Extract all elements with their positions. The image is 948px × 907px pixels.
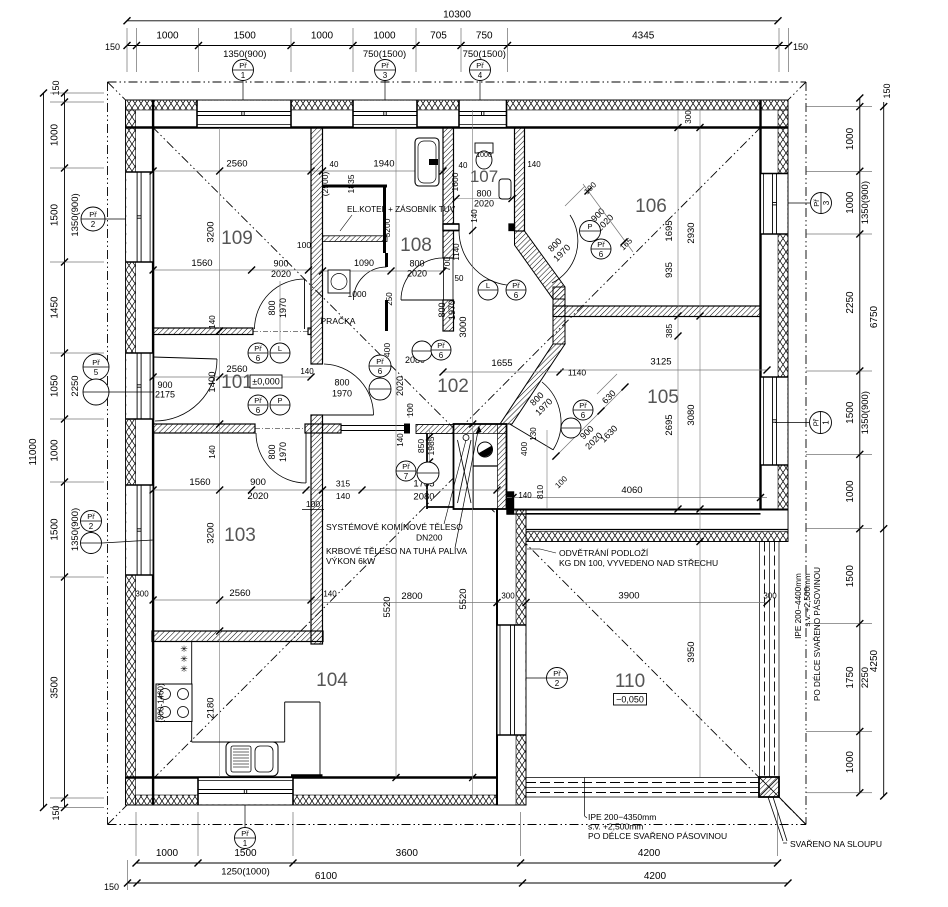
- svg-text:s.v. +2,500mm: s.v. +2,500mm: [803, 573, 812, 626]
- svg-text:Př: Př: [812, 418, 821, 426]
- stove: [156, 684, 192, 722]
- leader svareno: [768, 797, 783, 841]
- svg-text:150: 150: [793, 42, 808, 52]
- terrace west wall: [497, 509, 526, 805]
- svg-text:810: 810: [535, 485, 545, 499]
- svg-text:Př: Př: [376, 357, 384, 366]
- svg-text:2020: 2020: [395, 376, 405, 396]
- svg-text:900: 900: [273, 259, 288, 269]
- svg-text:1350(900): 1350(900): [70, 193, 81, 236]
- svg-text:705: 705: [430, 31, 447, 42]
- svg-text:1350(900): 1350(900): [860, 181, 871, 224]
- svg-text:1000: 1000: [845, 751, 856, 774]
- terrace north wall: [497, 509, 788, 542]
- exterior wall right core: [761, 100, 789, 542]
- dimension chain line: [136, 862, 778, 864]
- window bottom kitchen: [198, 778, 293, 804]
- vent pipe circle: [463, 435, 469, 441]
- svg-text:1350(900): 1350(900): [223, 49, 266, 60]
- svg-text:40: 40: [330, 160, 339, 169]
- marker Pr4 top: [470, 60, 491, 81]
- marker Pr2 terrace: [547, 668, 568, 689]
- door arc 102-108: [401, 258, 443, 300]
- svg-text:Př: Př: [553, 669, 561, 678]
- svg-text:6: 6: [514, 291, 519, 300]
- window right 105: [761, 377, 787, 465]
- bathtub room 108: [415, 138, 439, 186]
- window top 1000: [353, 101, 417, 127]
- svg-text:PO DÉLCE SVAŘENO PÁSOVINOU: PO DÉLCE SVAŘENO PÁSOVINOU: [588, 831, 727, 841]
- window left room103: [126, 485, 152, 575]
- door arc 109: [255, 279, 305, 329]
- steel column: [759, 777, 779, 797]
- marker Pr1 top: [233, 60, 254, 81]
- door arc entry 101: [155, 359, 217, 421]
- marker circle: [83, 379, 109, 405]
- marker: [369, 355, 391, 377]
- in-plan dim line y370 (3125): [560, 369, 767, 371]
- svg-text:50: 50: [455, 274, 464, 283]
- marker Pr1 right: [810, 412, 832, 434]
- sink: [226, 742, 278, 776]
- svg-text:2250: 2250: [70, 375, 81, 396]
- svg-text:6750: 6750: [869, 305, 880, 328]
- svg-text:101: 101: [221, 372, 253, 393]
- svg-text:5: 5: [94, 368, 99, 377]
- door threshold 101-103: [255, 428, 305, 430]
- chimney circle: [478, 442, 493, 457]
- insulation band bottom: [136, 795, 526, 805]
- svg-text:1695: 1695: [664, 220, 675, 241]
- dim line 6100/4200: [128, 882, 789, 884]
- roof overhang outline: [108, 81, 807, 83]
- svg-text:1000: 1000: [476, 152, 492, 159]
- svg-text:800: 800: [267, 444, 277, 459]
- svg-text:103: 103: [224, 525, 256, 546]
- marker Pr1 bottom: [235, 828, 256, 849]
- svg-text:PO DÉLCE SVAŘENO PÁSOVINOU: PO DÉLCE SVAŘENO PÁSOVINOU: [812, 567, 822, 701]
- svg-text:1970: 1970: [278, 298, 288, 318]
- svg-text:3200: 3200: [206, 522, 217, 543]
- svg-text:140: 140: [336, 491, 350, 501]
- svg-text:1: 1: [243, 839, 248, 848]
- svg-text:4345: 4345: [632, 31, 655, 42]
- svg-text:300: 300: [763, 592, 777, 601]
- in-plan dim line y497.5 (4060): [507, 497, 767, 499]
- svg-text:✳: ✳: [180, 654, 188, 664]
- in-plan dim line y372 (1655): [443, 371, 560, 373]
- svg-text:140: 140: [300, 367, 314, 376]
- svg-text:2930: 2930: [686, 222, 697, 243]
- bathtub faucet: [429, 159, 438, 165]
- svg-text:ODVĚTRÁNÍ PODLOŽÍ: ODVĚTRÁNÍ PODLOŽÍ: [559, 548, 649, 558]
- boiler niche partition (EL.KOTEL): [323, 185, 388, 188]
- svg-text:4200: 4200: [638, 848, 661, 859]
- svg-text:107: 107: [470, 167, 498, 186]
- svg-text:300: 300: [684, 110, 693, 124]
- svg-text:Př: Př: [254, 396, 262, 405]
- vertical dim x396: [395, 128, 397, 777]
- svg-text:102: 102: [437, 376, 469, 397]
- svg-text:4200: 4200: [644, 871, 667, 882]
- svg-text:800: 800: [409, 259, 424, 269]
- svg-text:700: 700: [442, 257, 452, 271]
- passage lintel lines 102: [341, 425, 404, 427]
- svg-text:Př: Př: [92, 358, 100, 367]
- svg-text:104: 104: [316, 670, 348, 691]
- kitchen counter: [191, 642, 193, 743]
- basin room 107: [499, 179, 511, 199]
- svg-text:3600: 3600: [396, 848, 419, 859]
- svg-text:✳: ✳: [180, 644, 188, 654]
- in-plan dim line y602.5: [323, 602, 768, 604]
- svg-text:1970: 1970: [447, 300, 457, 320]
- svg-text:150: 150: [104, 882, 119, 892]
- window top 1500: [197, 101, 291, 127]
- svg-text:1000: 1000: [373, 31, 396, 42]
- svg-text:EL.KOTEL + ZÁSOBNÍK TUV: EL.KOTEL + ZÁSOBNÍK TUV: [347, 204, 456, 214]
- svg-text:140: 140: [208, 315, 217, 329]
- diagonal wall corridor to 106: [515, 231, 566, 299]
- door arc 102-107: [459, 231, 514, 286]
- marker: [431, 340, 451, 360]
- marker: [506, 280, 526, 300]
- svg-text:5520: 5520: [458, 588, 469, 609]
- svg-text:1000: 1000: [156, 31, 179, 42]
- svg-text:108: 108: [400, 235, 432, 256]
- svg-text:11000: 11000: [28, 438, 39, 466]
- svg-text:150: 150: [105, 42, 120, 52]
- marker: [591, 239, 611, 259]
- roof hip line: [457, 82, 806, 432]
- svg-text:800: 800: [334, 378, 349, 388]
- svg-text:1450: 1450: [50, 296, 61, 319]
- svg-text:6: 6: [256, 354, 261, 363]
- marker: [396, 461, 416, 481]
- svg-text:(2500): (2500): [320, 172, 330, 197]
- window top 750: [459, 101, 507, 127]
- svg-text:6: 6: [378, 367, 383, 376]
- svg-text:3080: 3080: [686, 404, 697, 425]
- svg-text:Př: Př: [437, 341, 445, 350]
- svg-text:1350(900): 1350(900): [70, 508, 81, 551]
- marker Pr5: [83, 354, 109, 380]
- svg-text:3900: 3900: [618, 591, 639, 602]
- svg-text:1050: 1050: [50, 374, 61, 397]
- svg-text:2800: 2800: [401, 591, 422, 602]
- door arc 105: [542, 382, 561, 450]
- room 105 bottom wall: [507, 509, 761, 511]
- svg-text:DN200: DN200: [416, 533, 443, 543]
- in-plan dim line y270 (109): [153, 269, 311, 271]
- marker: [248, 395, 268, 415]
- dimension chain line: [859, 98, 861, 793]
- svg-text:3125: 3125: [650, 357, 671, 368]
- door arc 101-102: [324, 364, 374, 415]
- svg-text:1500: 1500: [845, 401, 856, 424]
- insulation band right: [778, 110, 788, 542]
- svg-text:P: P: [587, 222, 592, 231]
- svg-text:Př: Př: [812, 199, 821, 207]
- in-plan dim line y490: [153, 489, 497, 491]
- svg-text:750(1500): 750(1500): [463, 49, 506, 60]
- interior wall left of 106: [515, 128, 525, 232]
- marker Pr3 right: [811, 193, 832, 214]
- svg-text:Př: Př: [87, 512, 95, 521]
- interior wall 108/107: [443, 128, 454, 259]
- svg-text:2: 2: [555, 679, 560, 688]
- marker circle: [412, 341, 432, 361]
- svg-text:Př: Př: [381, 61, 389, 70]
- door arc 101-103: [256, 433, 306, 483]
- dim total 10300: [127, 20, 778, 22]
- svg-text:Př: Př: [241, 829, 249, 838]
- svg-text:100: 100: [406, 403, 415, 417]
- insulation band left: [126, 110, 136, 805]
- svg-text:4060: 4060: [621, 485, 642, 496]
- svg-text:1090: 1090: [354, 258, 374, 268]
- svg-text:1600: 1600: [450, 172, 460, 191]
- svg-text:900: 900: [250, 477, 266, 488]
- svg-text:3: 3: [383, 71, 388, 80]
- svg-text:10300: 10300: [443, 10, 471, 21]
- roof ridge: [456, 432, 458, 475]
- svg-text:3500: 3500: [50, 676, 61, 699]
- svg-text:2695: 2695: [664, 414, 675, 435]
- exterior wall left core: [126, 100, 154, 805]
- svg-text:3: 3: [822, 200, 831, 205]
- marker circle: [580, 221, 601, 242]
- svg-text:IPE 200−4350mm: IPE 200−4350mm: [588, 812, 656, 822]
- level box -0.050: [614, 694, 647, 706]
- svg-text:P: P: [277, 396, 282, 405]
- svg-text:140: 140: [518, 491, 532, 500]
- svg-text:100: 100: [306, 499, 320, 509]
- in-plan dim line y377 (101): [153, 376, 311, 378]
- roof hip line: [108, 82, 458, 432]
- svg-text:150: 150: [882, 83, 892, 98]
- marker circle: [417, 462, 439, 484]
- vertical dim x700: [699, 108, 701, 777]
- svg-text:2250: 2250: [845, 291, 856, 314]
- svg-text:2175: 2175: [155, 390, 175, 400]
- svg-text:1000: 1000: [50, 439, 61, 462]
- door threshold 109: [253, 331, 308, 333]
- svg-text:140: 140: [323, 590, 337, 599]
- svg-text:2020: 2020: [474, 199, 494, 209]
- interior wall below 106: [553, 306, 761, 317]
- interior wall 101/103: [153, 424, 255, 433]
- svg-text:6: 6: [256, 406, 261, 415]
- svg-text:40: 40: [459, 161, 468, 170]
- dim total 11000: [43, 93, 45, 808]
- svg-text:2020: 2020: [247, 491, 268, 502]
- chimney block (komin): [454, 424, 507, 509]
- svg-text:6: 6: [599, 250, 604, 259]
- vertical dim x678: [677, 108, 679, 509]
- svg-text:140: 140: [396, 433, 405, 447]
- flue slashes: [458, 440, 472, 503]
- door frame lines 108: [443, 258, 445, 300]
- IPE beams south: [526, 777, 779, 779]
- svg-text:2250: 2250: [860, 667, 871, 688]
- wall stub under 106: [553, 287, 565, 344]
- svg-text:1000: 1000: [50, 123, 61, 146]
- svg-text:PRAČKA: PRAČKA: [321, 316, 356, 326]
- svg-text:±0,000: ±0,000: [252, 377, 279, 387]
- roof hip line: [457, 475, 806, 825]
- marker circle: [81, 533, 102, 554]
- svg-text:2080: 2080: [413, 492, 434, 503]
- svg-text:1350(900): 1350(900): [860, 391, 871, 434]
- svg-text:SYSTÉMOVÉ KOMÍNOVÉ TĚLESO: SYSTÉMOVÉ KOMÍNOVÉ TĚLESO: [326, 522, 463, 532]
- svg-text:140: 140: [527, 160, 541, 169]
- svg-text:800: 800: [437, 302, 447, 317]
- svg-text:7: 7: [404, 472, 409, 481]
- svg-text:110: 110: [615, 671, 645, 692]
- svg-text:2020: 2020: [407, 269, 427, 279]
- svg-text:Př: Př: [239, 61, 247, 70]
- svg-text:1000: 1000: [311, 31, 334, 42]
- interior wall 103/104: [152, 631, 323, 642]
- svg-text:935: 935: [664, 262, 675, 278]
- svg-text:−0,050: −0,050: [616, 695, 644, 705]
- svg-text:IPE 200−4400mm: IPE 200−4400mm: [794, 573, 803, 639]
- svg-text:250: 250: [385, 292, 394, 306]
- svg-text:1560: 1560: [189, 477, 210, 488]
- exterior wall top core: [126, 100, 788, 128]
- svg-text:750: 750: [476, 31, 493, 42]
- svg-text:1750: 1750: [845, 666, 856, 689]
- svg-text:3000: 3000: [458, 316, 469, 337]
- svg-text:385: 385: [664, 324, 674, 338]
- svg-text:1000: 1000: [845, 127, 856, 150]
- svg-text:850: 850: [416, 439, 426, 453]
- dimension chain line: [64, 93, 66, 808]
- svg-text:1000: 1000: [845, 480, 856, 503]
- svg-text:106: 106: [635, 196, 667, 217]
- entry door left: [126, 353, 152, 419]
- chimney closet west wall: [416, 425, 454, 434]
- svg-text:130: 130: [529, 427, 538, 441]
- svg-text:2180: 2180: [206, 697, 217, 718]
- left wall inner face: [152, 100, 154, 805]
- svg-text:1000: 1000: [156, 848, 179, 859]
- svg-text:SVAŘENO NA SLOUPU: SVAŘENO NA SLOUPU: [790, 839, 882, 849]
- french door terrace wall: [498, 625, 526, 735]
- svg-text:1970: 1970: [278, 442, 288, 462]
- marker circle: [478, 280, 498, 300]
- interior wall below room 109: [153, 328, 253, 335]
- svg-text:(800-1460): (800-1460): [157, 683, 166, 722]
- svg-text:✳: ✳: [180, 664, 188, 674]
- marker circle: [270, 395, 290, 415]
- svg-text:800: 800: [476, 189, 491, 199]
- svg-text:1400: 1400: [207, 371, 218, 392]
- washer cell dim line y271: [323, 270, 444, 272]
- marker left Pr2: [81, 207, 105, 231]
- in-plan dim line y171: [153, 170, 445, 172]
- wall pier mark: [291, 774, 323, 778]
- svg-text:3200: 3200: [206, 221, 217, 242]
- svg-text:400: 400: [382, 343, 392, 357]
- roof corner diagonal at column: [779, 797, 806, 825]
- bottom wall inner face: [126, 776, 526, 778]
- svg-text:315: 315: [336, 479, 350, 489]
- svg-text:Př: Př: [89, 210, 97, 219]
- washer cell wall: [385, 253, 388, 267]
- svg-text:2: 2: [89, 522, 94, 531]
- svg-text:1140: 1140: [568, 368, 587, 378]
- insulation band top: [126, 100, 788, 110]
- svg-text:100: 100: [297, 240, 311, 250]
- svg-text:2: 2: [91, 220, 96, 229]
- svg-text:140: 140: [470, 209, 479, 223]
- svg-text:400: 400: [519, 442, 529, 456]
- marker circle: [561, 418, 581, 438]
- svg-text:Př: Př: [402, 462, 410, 471]
- svg-text:150: 150: [51, 80, 61, 95]
- svg-text:2020: 2020: [271, 269, 291, 279]
- door arc washer cell: [354, 267, 387, 300]
- level box 0.000: [250, 375, 282, 388]
- right wall inner face: [759, 100, 761, 542]
- svg-text:750(1500): 750(1500): [363, 49, 406, 60]
- svg-text:1: 1: [822, 420, 831, 425]
- svg-text:1500: 1500: [50, 518, 61, 541]
- svg-text:1500: 1500: [50, 203, 61, 226]
- svg-text:105: 105: [647, 387, 679, 408]
- svg-text:VÝKON 6kW: VÝKON 6kW: [326, 556, 375, 566]
- exterior wall bottom core: [126, 778, 526, 806]
- svg-text:2560: 2560: [229, 588, 250, 599]
- marker left Pr2c: [81, 511, 102, 532]
- svg-text:3200: 3200: [382, 218, 392, 237]
- svg-text:KRBOVÉ TĚLESO NA TUHÁ PALIVA: KRBOVÉ TĚLESO NA TUHÁ PALIVA: [326, 546, 467, 556]
- wall 107 bottom: [443, 224, 459, 231]
- roof hip line: [108, 475, 458, 825]
- svg-text:300: 300: [501, 592, 515, 601]
- svg-text:s.v. +2,500mm: s.v. +2,500mm: [588, 822, 643, 832]
- IPE beams east: [759, 542, 761, 798]
- svg-text:6: 6: [439, 351, 444, 360]
- diagonal wall corridor to 105: [500, 344, 565, 424]
- svg-text:L: L: [486, 281, 490, 290]
- svg-text:1140: 1140: [452, 243, 461, 261]
- dim totals right: [883, 102, 885, 796]
- svg-text:6: 6: [581, 411, 586, 420]
- interior wall between 109/101 and 108 (vertical mid): [311, 128, 323, 365]
- svg-text:KG DN 100, VYVEDENO NAD STŘECH: KG DN 100, VYVEDENO NAD STŘECHU: [559, 558, 718, 568]
- svg-text:Př: Př: [597, 240, 605, 249]
- svg-text:1: 1: [241, 71, 246, 80]
- svg-text:1560: 1560: [191, 258, 212, 269]
- svg-text:4: 4: [478, 71, 483, 80]
- svg-text:109: 109: [221, 228, 253, 249]
- svg-text:1500: 1500: [234, 31, 257, 42]
- svg-text:1250(1000): 1250(1000): [221, 867, 270, 878]
- vertical dim x219.7: [219, 128, 221, 777]
- svg-text:800: 800: [267, 300, 277, 315]
- svg-text:L: L: [278, 344, 282, 353]
- svg-text:Př: Př: [254, 344, 262, 353]
- in-plan dim line y600 (103): [153, 599, 322, 601]
- window left 1500: [126, 172, 152, 262]
- door arc 106: [552, 215, 578, 283]
- svg-text:1970: 1970: [332, 389, 352, 399]
- dimension chain line: [127, 45, 789, 47]
- svg-text:1655: 1655: [491, 358, 512, 369]
